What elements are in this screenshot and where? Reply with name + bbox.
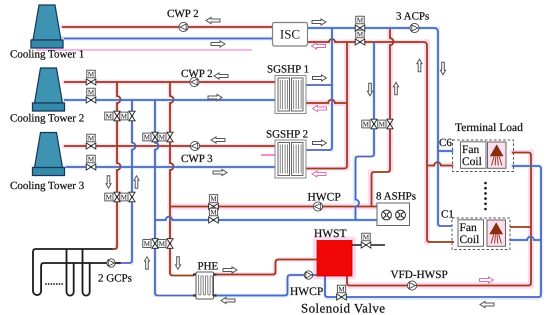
svg-text:M: M: [210, 208, 217, 216]
wire: cooling tower 3 red supply: [64, 145, 275, 147]
wire: blue bus branch to fan coil C6: [438, 150, 453, 152]
flow arrow down red bus x117: [106, 176, 111, 188]
wire: HWST to VFD-HWSP loop and fan-coil return bus: [347, 153, 531, 286]
pump CWP2 (tower2 row): [190, 77, 199, 86]
svg-text:HWST: HWST: [314, 228, 347, 240]
svg-text:ISC: ISC: [280, 27, 300, 42]
borehole U-tube 2 (wire): [67, 249, 74, 296]
valve M tower3 blue line: [86, 155, 96, 170]
flow arrow right SGSHP2 blue out: [313, 140, 327, 146]
wire: cooling tower 2 red supply: [64, 81, 275, 83]
pink flow arrow right VFD line: [480, 277, 494, 283]
flow arrow right above ISC blue out: [312, 19, 326, 25]
pump CWP2 (tower1 row): [179, 22, 188, 31]
valve M on blue bus x132 upper: [120, 111, 135, 121]
wire: left blue bus x155 to PHE: [155, 100, 194, 296]
heat pump SGSHP2 box: [275, 140, 306, 178]
valve M on make-up stub: [361, 233, 371, 248]
svg-text:SGSHP 2: SGSHP 2: [266, 129, 308, 141]
flow arrow down red bus x170: [175, 257, 180, 269]
svg-text:Coil: Coil: [462, 156, 482, 168]
wire: left red bus x170 to PHE: [170, 82, 194, 276]
wire: cooling tower 1 supply (red) to ISC: [62, 26, 272, 28]
valve M on ASHP blue header: [209, 208, 219, 223]
valve M on red bus x170 upper: [158, 132, 173, 142]
svg-text:C6: C6: [439, 137, 452, 149]
valve M on red bus x170 lower: [158, 239, 173, 249]
pink flow arrow left SGSHP2 red in: [312, 171, 326, 177]
valve M on blue bus x155 upper: [143, 132, 158, 142]
wire: left red bus x117: [112, 82, 121, 249]
ghost pink line under cooling tower 1 row: [36, 49, 252, 51]
valve M on blue bus x132 lower: [120, 192, 135, 202]
valve M tower2 red line: [86, 70, 96, 85]
svg-text:Solenoid Valve: Solenoid Valve: [301, 301, 385, 315]
valve M on blue bus x155 lower: [143, 239, 158, 249]
pink flow arrow left SGSHP1 red in: [313, 105, 327, 111]
wire: SGSHP1 right red to vertical bus: [306, 100, 347, 103]
svg-text:Cooling Tower 2: Cooling Tower 2: [10, 113, 84, 125]
flow arrow down blue terminal bus: [440, 62, 445, 75]
valve M on red bus x117 upper: [105, 111, 120, 121]
solenoid valve M on HWST drain: [337, 285, 347, 300]
svg-text:Terminal Load: Terminal Load: [455, 122, 523, 134]
flow arrow left above tower1 red: [206, 17, 220, 23]
svg-text:HWCP: HWCP: [308, 192, 341, 204]
svg-text:M: M: [159, 134, 166, 142]
flow arrow up red drop: [393, 82, 398, 95]
ellipsis dots between boreholes: [45, 283, 63, 285]
svg-text:M: M: [88, 70, 95, 78]
pump 2 GCPs: [107, 259, 115, 267]
svg-text:M: M: [144, 240, 151, 248]
wire: red bus branch to fan coil C6: [427, 162, 453, 165]
flow arrow left bottom blue return: [480, 301, 494, 307]
svg-text:CWP 2: CWP 2: [181, 68, 213, 80]
pump VFD-HWSP: [407, 281, 416, 290]
svg-text:M: M: [363, 233, 370, 241]
pump 3 ACPs: [410, 23, 419, 32]
svg-text:C1: C1: [441, 209, 454, 221]
flow arrow left tower3 red: [211, 137, 225, 143]
svg-text:M: M: [357, 30, 364, 38]
wire: cooling tower 2 blue return: [64, 99, 275, 101]
svg-text:Cooling Tower 3: Cooling Tower 3: [10, 180, 85, 192]
pump HWCP (lower): [304, 271, 312, 279]
valve M tower2 blue line: [86, 88, 96, 103]
valve M on ASHP blue drop: [362, 119, 377, 129]
ISC box: [273, 23, 308, 47]
flow arrow right SGSHP1 blue out: [313, 75, 327, 81]
svg-text:Cooling Tower 1: Cooling Tower 1: [10, 49, 84, 61]
wire: fan coil C1 red return: [510, 226, 531, 228]
flow arrow right PHE hot out: [223, 267, 237, 273]
svg-text:M: M: [88, 88, 95, 96]
valve M on ASHP red drop: [378, 119, 393, 129]
wire: blue vertical bus x332 to SGSHP2: [306, 28, 332, 150]
svg-text:M: M: [88, 155, 95, 163]
pink flow arrow left below ISC red out: [312, 43, 326, 49]
svg-text:M: M: [338, 285, 345, 293]
svg-text:CWP 3: CWP 3: [181, 153, 213, 165]
wire: ISC outlet red header to terminal bus: [308, 39, 427, 162]
pump HWCP (upper): [313, 202, 322, 211]
ASHP unit box with two fans: [377, 203, 410, 226]
flow arrow down blue drop: [367, 83, 372, 96]
vertical ellipsis between fan coils: [484, 182, 487, 211]
fan coil unit C1: [452, 218, 510, 250]
borehole U-tube 3 (wire): [83, 249, 90, 296]
valve M on red bus x117 lower: [105, 192, 120, 202]
svg-text:M: M: [106, 113, 113, 121]
flow arrow right tower2 blue: [208, 94, 222, 100]
svg-text:M: M: [159, 240, 166, 248]
wire: left blue bus x132 to ground loop: [121, 100, 136, 263]
ground loop header and borehole U-tube 1 (wire): [33, 249, 121, 295]
wire: red bus down to fan coil C1: [427, 160, 454, 242]
wire: red vertical bus x347: [306, 42, 347, 169]
flow arrow left tower2 red: [214, 73, 228, 79]
ghost magenta stub at SGSHP 2 left: [261, 154, 277, 156]
svg-text:Coil: Coil: [460, 234, 480, 246]
wire: blue drop from red header to ASHP: [356, 43, 375, 221]
svg-text:M: M: [144, 134, 151, 142]
pipe glow underlay (decorative halo): [62, 27, 541, 298]
svg-text:CWP 2: CWP 2: [167, 8, 199, 20]
svg-text:HWCP: HWCP: [290, 286, 323, 298]
svg-text:M: M: [121, 194, 128, 202]
wire: ISC blue header to ACP and terminal bus: [308, 28, 438, 148]
PHE plate heat exchanger: [193, 272, 217, 299]
wire: SGSHP1 right blue to bus: [306, 84, 332, 86]
wire: cooling tower 1 return (blue) from ISC: [62, 38, 272, 40]
HWST hot water storage tank: [317, 241, 352, 277]
wire: PHE cold side to HWCP and HWST: [216, 275, 318, 296]
svg-text:PHE: PHE: [198, 261, 219, 273]
wire: cooling tower 3 blue return: [64, 166, 275, 168]
cooling tower 2 symbol: [32, 68, 66, 112]
wire: red drop from ACP line to ASHP: [372, 28, 394, 206]
wire: blue bus down to fan coil C1: [438, 146, 452, 226]
fan coil unit C6: [453, 140, 514, 172]
cooling tower 1 symbol: [30, 5, 64, 49]
svg-text:Fan: Fan: [462, 144, 480, 156]
svg-text:M: M: [379, 121, 386, 129]
valve M tower3 red line: [86, 134, 96, 149]
valve M on red header: [355, 30, 365, 45]
heat pump SGSHP1 box: [275, 76, 306, 114]
valve M on ASHP red header: [209, 195, 219, 210]
wire: fan coil C1 blue return: [510, 237, 541, 240]
svg-text:VFD-HWSP: VFD-HWSP: [391, 269, 448, 281]
flow arrow left PHE cold in: [221, 297, 235, 303]
wire: HWST make-up water stub (black): [352, 244, 385, 246]
cooling tower 3 symbol: [32, 133, 66, 177]
wire: ASHP blue header: [155, 217, 377, 220]
svg-text:M: M: [210, 195, 217, 203]
svg-text:8 ASHPs: 8 ASHPs: [376, 191, 416, 203]
wire: PHE hot out to HWST: [216, 260, 318, 275]
svg-text:SGSHP 1: SGSHP 1: [267, 64, 309, 76]
flow arrow up blue bus x155: [144, 257, 149, 269]
svg-text:2 GCPs: 2 GCPs: [98, 273, 132, 285]
flow arrow right tower3 blue: [213, 169, 227, 175]
wire: fan coil C6 blue return to right bus: [325, 166, 541, 297]
flow arrow up blue bus x132: [134, 176, 139, 188]
svg-text:M: M: [363, 121, 370, 129]
svg-text:M: M: [88, 134, 95, 142]
valve M on ACP blue header: [355, 16, 365, 31]
flow arrow up red terminal bus: [417, 59, 422, 72]
svg-text:M: M: [357, 16, 364, 24]
svg-text:M: M: [121, 113, 128, 121]
pump CWP3: [190, 141, 199, 150]
flow arrow right below tower1 blue: [211, 41, 225, 47]
svg-text:M: M: [106, 194, 113, 202]
svg-text:3 ACPs: 3 ACPs: [396, 11, 429, 23]
svg-text:Fan: Fan: [460, 222, 478, 234]
wire: ASHP red header with HWCP: [170, 206, 377, 208]
